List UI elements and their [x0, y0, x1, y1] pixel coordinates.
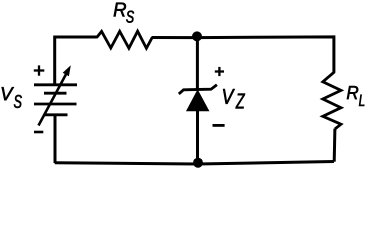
variable arrow head: [63, 65, 71, 76]
label V_S: [2, 87, 14, 100]
label R_S: [114, 3, 126, 17]
label V_Z: [223, 89, 235, 104]
wire top-right segment (R_S to top-right corner and down to R_L): [152, 37, 334, 73]
wire bottom (full bottom rail): [55, 162, 334, 165]
zener diode V_Z triangle (anode, pointing up): [187, 90, 209, 111]
minus sign of V_Z: [213, 124, 225, 127]
zener diode V_Z cathode bar: [179, 85, 217, 94]
label R_L: [347, 86, 358, 99]
node B (bottom junction dot): [193, 158, 203, 168]
battery plate 1 (long, top): [34, 83, 77, 86]
source V_S (variable battery): [34, 73, 77, 126]
wire bottom-left vertical (battery minus to bottom rail): [54, 115, 57, 163]
wire middle branch lower (zener anode down to node B): [196, 110, 199, 164]
plus sign of V_S: [34, 65, 45, 75]
resistor R_L: [323, 72, 341, 129]
resistor R_S: [97, 31, 152, 48]
battery plate 4 (short, bottom): [45, 113, 68, 116]
battery plate 3 (long): [34, 103, 77, 106]
wire bottom-right vertical (R_L to bottom rail): [333, 129, 337, 162]
battery plate 2 (short): [44, 92, 67, 95]
wire top-left segment (corner at V_S branch to R_S): [55, 37, 98, 85]
wire middle branch upper (node A down to zener cathode): [196, 38, 199, 89]
minus sign of V_S: [34, 131, 43, 134]
plus sign of V_Z: [215, 67, 224, 76]
variable arrow shaft: [39, 73, 67, 126]
node A (top junction dot): [192, 31, 202, 41]
